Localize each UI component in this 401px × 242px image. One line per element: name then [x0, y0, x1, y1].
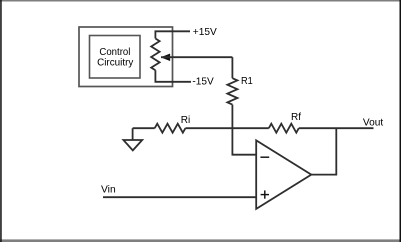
wire Vin to non-inverting input: [103, 196, 256, 198]
svg-text:-15V: -15V: [192, 76, 213, 88]
svg-text:Ri: Ri: [181, 114, 191, 126]
op-amp U1: [256, 140, 311, 209]
resistor Ri body: [155, 124, 186, 133]
wire R1 to summing node: [231, 105, 233, 129]
frame border left: [0, 0, 2, 242]
wire summing node to inverting input: [232, 128, 256, 155]
wire wiper down to R1: [231, 57, 233, 78]
frame border top: [0, 0, 401, 2]
potentiometer P1 body: [151, 39, 159, 71]
control circuitry outer box: [79, 27, 173, 87]
label Control Circuitry: [97, 46, 134, 68]
svg-text:Circuitry: Circuitry: [97, 56, 134, 68]
wire Ri to Rf (summing node): [185, 127, 268, 129]
wire ground to Ri: [133, 127, 155, 129]
wire wiper to R1: [161, 56, 232, 58]
svg-text:Vout: Vout: [363, 117, 383, 129]
wire +15V rail: [155, 31, 190, 38]
svg-text:R1: R1: [241, 75, 253, 87]
op-amp plus pin mark: [261, 190, 269, 198]
resistor Rf body: [269, 124, 299, 133]
frame border right: [400, 0, 401, 242]
ground: [123, 128, 142, 150]
wire Rf to Vout: [299, 127, 374, 129]
potentiometer wiper arrow: [161, 54, 170, 61]
svg-text:Vin: Vin: [101, 184, 116, 196]
op-amp minus pin mark: [260, 156, 269, 158]
svg-text:Rf: Rf: [291, 111, 301, 123]
control circuitry inner box: [90, 36, 141, 79]
wire op-amp output feedback to Vout node: [311, 128, 336, 174]
wire -15V rail: [155, 70, 191, 82]
resistor R1 body: [227, 78, 237, 104]
frame border bottom: [0, 239, 401, 242]
svg-text:+15V: +15V: [193, 26, 217, 38]
